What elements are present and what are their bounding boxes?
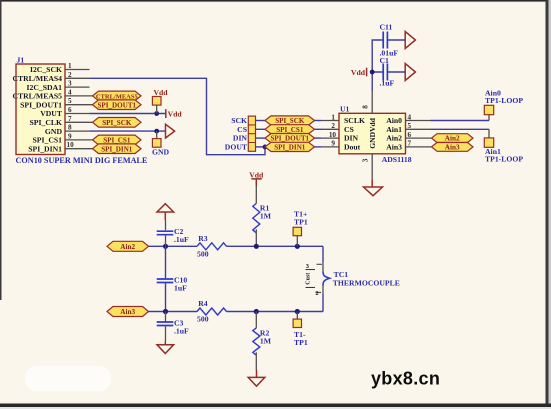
svg-text:CTRL/MEAS4: CTRL/MEAS4 <box>12 74 62 83</box>
svg-text:SPI_DOUT1: SPI_DOUT1 <box>97 101 136 109</box>
junction DOUT net <box>263 145 268 150</box>
wire Ain1 to test point <box>431 128 490 130</box>
wire Ain0 to test point <box>431 120 490 122</box>
svg-text:Ain2: Ain2 <box>120 243 135 251</box>
svg-text:1M: 1M <box>260 337 272 346</box>
junction R2 node <box>254 309 259 314</box>
svg-text:CS: CS <box>344 125 354 134</box>
wire top rail to TC1 <box>322 246 324 262</box>
test point Ain1 TP1-LOOP <box>484 129 523 163</box>
svg-text:500: 500 <box>197 315 209 324</box>
svg-text:ADS1118: ADS1118 <box>382 155 412 164</box>
svg-text:CON10 SUPER MINI DIG FEMALE: CON10 SUPER MINI DIG FEMALE <box>16 156 148 165</box>
wire SCK row <box>256 120 266 122</box>
svg-text:SCK: SCK <box>231 116 247 125</box>
svg-text:1: 1 <box>68 62 72 70</box>
junction GND node <box>154 129 159 134</box>
svg-text:500: 500 <box>197 250 209 259</box>
svg-text:CS: CS <box>237 125 247 134</box>
svg-text:C11: C11 <box>380 23 393 32</box>
svg-text:TP1-LOOP: TP1-LOOP <box>485 155 523 164</box>
wire VDUT to Vdd <box>90 113 166 115</box>
svg-text:3: 3 <box>361 158 369 162</box>
svg-text:SPI_SCK: SPI_SCK <box>275 117 305 125</box>
wire DOUT row <box>256 146 266 148</box>
wire bottom rail to TC1 <box>322 294 324 312</box>
svg-text:Ain3: Ain3 <box>386 143 402 152</box>
port SPI_SCK <box>93 118 142 128</box>
svg-text:7: 7 <box>408 140 412 148</box>
thermocouple TC1 <box>306 262 400 297</box>
U1 pin 4 <box>406 113 431 121</box>
svg-text:2: 2 <box>331 122 335 130</box>
connector J1 CON10 <box>12 56 148 166</box>
svg-text:5: 5 <box>68 97 72 105</box>
resistor R3 <box>197 234 226 259</box>
svg-text:TP1-LOOP: TP1-LOOP <box>485 96 523 105</box>
svg-text:10: 10 <box>329 131 337 139</box>
svg-text:9: 9 <box>331 140 335 148</box>
svg-text:6: 6 <box>408 131 412 139</box>
svg-text:6: 6 <box>68 106 72 114</box>
svg-text:VDUT: VDUT <box>40 109 63 118</box>
port SPI_SCK (mid) <box>265 116 315 125</box>
ground above C2 <box>157 204 174 221</box>
svg-text:.1uF: .1uF <box>174 235 189 244</box>
svg-text:Vdd: Vdd <box>168 109 183 118</box>
svg-text:GND: GND <box>152 148 170 157</box>
svg-text:SPI_DIN1: SPI_DIN1 <box>101 145 133 153</box>
svg-text:GND: GND <box>45 127 63 136</box>
svg-text:THERMOCOUPLE: THERMOCOUPLE <box>333 279 400 288</box>
svg-text:5: 5 <box>408 122 412 130</box>
svg-text:TP1: TP1 <box>294 218 308 227</box>
power port Vdd (above R1) <box>249 171 264 186</box>
power port Vdd (bar) <box>166 109 183 118</box>
svg-text:Vdd: Vdd <box>153 88 168 97</box>
test point T1+ TP1 <box>293 210 308 247</box>
svg-text:Ain1: Ain1 <box>386 125 402 134</box>
U1 pin 3 (GND bottom) <box>361 154 372 179</box>
ground below C3 <box>157 342 174 354</box>
wire CS row <box>256 128 266 130</box>
J1 pin 5 <box>65 97 93 105</box>
capacitor C3 <box>157 312 189 342</box>
port SPI_DOUT1 (mid) <box>265 134 315 143</box>
U1 pin 5 <box>406 122 431 130</box>
wire C1 to gnd <box>387 71 405 73</box>
svg-text:1: 1 <box>331 113 335 121</box>
J1 pin 7 <box>65 115 93 123</box>
junction Vdd/C1 <box>370 70 375 75</box>
top rail wire <box>149 245 324 247</box>
ground arrow (C1) <box>405 64 415 81</box>
svg-text:SPI_DIN1: SPI_DIN1 <box>28 144 62 153</box>
svg-text:Ain3: Ain3 <box>120 308 135 316</box>
svg-text:R4: R4 <box>198 299 208 308</box>
svg-text:DIN: DIN <box>344 134 359 143</box>
svg-text:Cust: Cust <box>306 273 312 285</box>
wire Vdd to R1 <box>255 186 257 203</box>
svg-text:DOUT: DOUT <box>225 143 248 152</box>
svg-text:2: 2 <box>68 71 72 79</box>
U1 pin 7 <box>406 140 432 148</box>
J1 pin 3 <box>65 80 90 88</box>
svg-text:SPI_DOUT1: SPI_DOUT1 <box>270 135 309 143</box>
test point Vdd square <box>152 88 168 114</box>
svg-text:4: 4 <box>68 88 72 96</box>
svg-text:CTRL/MEAS5: CTRL/MEAS5 <box>12 92 62 101</box>
svg-text:SPI_CS1: SPI_CS1 <box>33 136 63 145</box>
J1 pin 2 <box>65 71 90 79</box>
port Ain2 (bottom) <box>107 241 149 251</box>
svg-text:Dout: Dout <box>344 143 361 152</box>
power port Vdd (top) <box>351 68 367 77</box>
svg-text:SPI_SCK: SPI_SCK <box>102 119 132 127</box>
U1 pin 6 <box>406 131 432 139</box>
svg-text:U1: U1 <box>340 104 350 113</box>
svg-text:9: 9 <box>68 132 72 140</box>
wire R2 to ground <box>255 352 257 370</box>
test point T1- TP1 <box>293 312 308 348</box>
port CTRL/MEAS5 <box>93 91 142 101</box>
svg-text:Ain2: Ain2 <box>386 134 402 143</box>
svg-text:TP1: TP1 <box>294 338 308 347</box>
svg-text:.1uF: .1uF <box>174 327 189 336</box>
svg-text:SPI_CLK: SPI_CLK <box>30 118 62 127</box>
capacitor C10 <box>157 246 188 311</box>
bottom rail wire <box>149 311 324 313</box>
svg-text:.1uF: .1uF <box>380 79 395 88</box>
J1 pin 6 <box>65 106 90 114</box>
ground arrow (C11) <box>405 32 415 49</box>
port SPI_DIN1 <box>93 144 142 154</box>
wire R1 to top rail <box>255 229 257 246</box>
svg-text:10: 10 <box>67 141 75 149</box>
svg-text:SPI_DOUT1: SPI_DOUT1 <box>20 100 62 109</box>
wire SPI_CS1 to U1 pin2 <box>315 122 340 130</box>
svg-text:SPI_CS1: SPI_CS1 <box>276 126 304 134</box>
svg-text:8: 8 <box>361 105 369 109</box>
J1 pin 10 <box>65 141 93 149</box>
svg-text:DIN: DIN <box>233 134 248 143</box>
port Ain3 (bottom) <box>107 307 149 317</box>
svg-text:SCLK: SCLK <box>344 116 365 125</box>
junction C2 node <box>163 244 168 249</box>
wire pin2 CTRL/MEAS4 to DOUT node <box>90 78 266 154</box>
port SPI_CS1 <box>93 135 142 145</box>
svg-text:Ain2: Ain2 <box>445 135 460 143</box>
junction T1- node <box>295 309 300 314</box>
capacitor C11 <box>380 23 399 58</box>
ground below U1 <box>364 179 383 196</box>
svg-text:GNDVdd: GNDVdd <box>368 117 377 149</box>
port SPI_DOUT1 <box>93 100 142 110</box>
resistor R4 <box>197 299 226 324</box>
svg-text:ybx8.cn: ybx8.cn <box>371 369 440 389</box>
svg-text:I2C_SDA1: I2C_SDA1 <box>27 83 63 92</box>
svg-text:Ain0: Ain0 <box>386 116 402 125</box>
wire DIN row <box>256 137 266 139</box>
svg-text:Ain3: Ain3 <box>445 144 460 152</box>
port SPI_DIN1 (mid) <box>265 142 315 151</box>
svg-text:3: 3 <box>68 80 72 88</box>
wire SPI_DIN1 to U1 pin9 <box>315 140 340 148</box>
IC U1 ADS1118 <box>339 104 412 164</box>
junction T1+ node <box>295 244 300 249</box>
resistor R2 <box>253 312 272 356</box>
J1 pin 9 <box>65 132 93 140</box>
watermark blob <box>25 366 111 391</box>
wire Vdd net to U1 pin8 <box>372 40 383 91</box>
test point Ain0 TP1-LOOP <box>484 88 523 120</box>
J1 pin 4 <box>65 88 93 96</box>
page border frame <box>0 0 551 2</box>
svg-text:I2C_SCK: I2C_SCK <box>30 65 62 74</box>
wire GND row <box>90 130 166 132</box>
svg-text:SPI_DIN1: SPI_DIN1 <box>274 144 306 152</box>
port Ain2 (right) <box>432 134 474 143</box>
capacitor C1 <box>380 56 395 88</box>
capacitor C2 <box>157 220 189 246</box>
power port GND (arrow) <box>166 124 175 138</box>
port Ain3 (right) <box>432 143 474 152</box>
J1 pin 8 <box>65 124 90 132</box>
svg-text:1uF: 1uF <box>174 283 187 292</box>
junction C3 node <box>163 309 168 314</box>
svg-text:J1: J1 <box>17 56 25 65</box>
resistor R1 <box>253 203 272 232</box>
svg-text:2: 2 <box>316 291 319 297</box>
port SPI_CS1 (mid) <box>265 125 315 134</box>
J1 pin 1 <box>65 62 90 70</box>
svg-text:4: 4 <box>408 113 412 121</box>
svg-text:R3: R3 <box>198 234 208 243</box>
ground below R2 <box>248 370 265 386</box>
svg-text:Vdd: Vdd <box>351 68 366 77</box>
junction VDUT node <box>154 111 159 116</box>
jumper block SCK/CS/DIN/DOUT <box>225 116 256 151</box>
svg-text:7: 7 <box>68 115 72 123</box>
junction R1 node <box>254 244 259 249</box>
svg-text:1M: 1M <box>260 211 272 220</box>
wire SPI_DOUT1 to U1 pin10 <box>315 131 340 139</box>
wire SPI_SCK to U1 pin1 <box>315 113 340 121</box>
wire C11 to gnd <box>387 39 405 41</box>
test point GND square <box>152 131 170 156</box>
svg-text:8: 8 <box>68 124 72 132</box>
U1 pin 8 (Vdd top) <box>361 91 372 113</box>
